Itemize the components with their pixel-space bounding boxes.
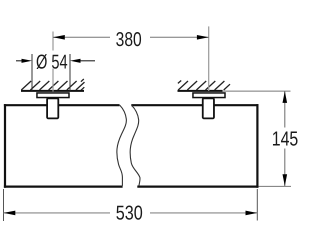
- dim 145 line: [284, 91, 286, 186]
- break line left wave: [117, 105, 127, 186]
- hatching left wall: [21, 79, 84, 91]
- dim 380 right arrow: [197, 35, 209, 40]
- stem right bracket: [203, 98, 214, 118]
- dim 145 bottom arrow: [283, 174, 288, 186]
- dim 380 line: [53, 36, 209, 38]
- svg-text:Ø 54: Ø 54: [36, 51, 68, 73]
- dim O54 right arrow: [80, 60, 95, 62]
- dim 530 left arrow: [4, 211, 16, 216]
- svg-text:380: 380: [116, 29, 142, 51]
- dim 530 extension lines: [4, 189, 258, 221]
- hatching right wall: [178, 81, 230, 91]
- glass shelf outline: [4, 104, 259, 188]
- dim 380 left arrow: [53, 35, 65, 40]
- wall line right: [178, 90, 223, 92]
- flange left bracket: [37, 93, 69, 98]
- svg-text:530: 530: [116, 202, 143, 224]
- flange right bracket: [193, 93, 225, 98]
- dim 530 line: [4, 212, 258, 214]
- break line right wave: [130, 105, 140, 186]
- svg-text:145: 145: [272, 129, 299, 151]
- stem left bracket: [47, 98, 58, 118]
- extension line 145 top (wall line extended): [223, 90, 291, 92]
- dim 530 right arrow: [246, 211, 258, 216]
- dim 145 top arrow: [283, 91, 288, 103]
- wall line left: [21, 90, 84, 92]
- dim 145 extension bottom: [259, 185, 292, 187]
- centerline right bracket: [208, 26, 210, 91]
- dim O54 extension lines: [32, 54, 70, 91]
- centerline left bracket: [52, 32, 54, 92]
- dim O54 left arrow: [16, 60, 23, 62]
